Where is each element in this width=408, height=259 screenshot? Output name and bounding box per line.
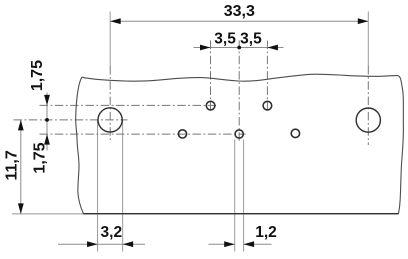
svg-text:3,2: 3,2 [101, 224, 123, 241]
svg-text:3,5 3,5: 3,5 3,5 [214, 30, 262, 47]
svg-text:1,75: 1,75 [29, 60, 46, 91]
svg-text:33,3: 33,3 [224, 3, 255, 20]
svg-text:1,75: 1,75 [32, 142, 49, 173]
svg-text:11,7: 11,7 [4, 150, 21, 180]
svg-text:1,2: 1,2 [255, 224, 277, 241]
